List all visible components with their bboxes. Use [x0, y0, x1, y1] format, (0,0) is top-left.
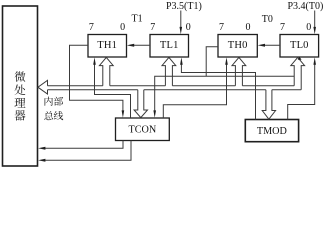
- svg-text:T1: T1: [132, 13, 143, 24]
- wire: TH0 left side branch down to control run: [206, 47, 218, 77]
- wire: TMOD control run up into TL1 bottom (arrow) and down into TMOD top: [181, 62, 255, 120]
- wire: TCON to CPU line B (arrow left into CPU): [44, 141, 131, 161]
- svg-text:0: 0: [120, 22, 125, 33]
- label 内部总线 internal bus: [45, 97, 53, 106]
- wire: TMOD up to TL0 bottom (arrow up into TL0): [288, 62, 315, 120]
- wire: carry TL1 to TH1: [133, 44, 150, 46]
- svg-text:TL0: TL0: [290, 40, 309, 51]
- wire: TH1 left side down to TCON (arrow down into TCON top): [70, 45, 123, 111]
- svg-text:P3.4(T0): P3.4(T0): [288, 1, 324, 12]
- wire: P3.5(T1) pin input into TL1 top: [180, 11, 182, 31]
- label 微: [15, 71, 26, 82]
- register TL0: [280, 35, 319, 58]
- wire: bus top line: [48, 85, 103, 87]
- register TCON: [116, 118, 170, 141]
- svg-text:7: 7: [280, 22, 285, 33]
- label 理: [15, 98, 26, 108]
- wire: TCON to TH1 (arrow up into TH1 bottom): [95, 62, 131, 118]
- svg-text:7: 7: [150, 22, 155, 33]
- svg-text:TMOD: TMOD: [257, 126, 287, 137]
- svg-text:7: 7: [219, 22, 224, 33]
- svg-text:0: 0: [246, 22, 251, 33]
- wire: TCON up to TH0 bottom (arrow up into TH0): [163, 62, 226, 118]
- wire: hidden riser tip into TL0 (dark tip inside hollow arrow): [298, 57, 302, 60]
- svg-text:TL1: TL1: [160, 40, 179, 51]
- wire: bus bottom line: [48, 89, 138, 91]
- internal bus pipe: hollow arrow into microprocessor: [38, 80, 48, 94]
- microprocessor box 微处理器: [3, 6, 38, 166]
- hollow bus arrow down into TMOD: [262, 90, 275, 120]
- svg-text:TCON: TCON: [129, 124, 157, 135]
- wire: TCON to CPU line A (arrow left into CPU): [44, 141, 123, 149]
- svg-text:0: 0: [186, 22, 191, 33]
- register TH1: [88, 35, 127, 58]
- svg-text:TH1: TH1: [97, 40, 117, 51]
- hollow bus arrow up into TL0: [291, 57, 305, 89]
- svg-text:TH0: TH0: [228, 40, 248, 51]
- register TL1: [150, 35, 189, 58]
- svg-text:P3.5(T1): P3.5(T1): [166, 1, 202, 12]
- svg-text:T0: T0: [262, 14, 273, 25]
- register TMOD: [245, 120, 298, 142]
- wire: P3.4(T0) pin input into TL0 top: [314, 11, 316, 31]
- hollow bus arrow up into TH1: [99, 57, 113, 85]
- hollow bus arrow up into TH0: [232, 57, 246, 85]
- hollow bus arrow down into TCON: [134, 90, 147, 118]
- svg-text:7: 7: [89, 22, 94, 33]
- wire: control run to TCON (arrow down into TCON) and to TL0 via bus-arrow shaft: [155, 76, 295, 111]
- register TH0: [218, 35, 257, 58]
- label 器: [15, 110, 26, 120]
- label 处: [15, 85, 26, 96]
- hollow bus arrow up into TL1: [162, 57, 176, 85]
- svg-text:0: 0: [306, 22, 311, 33]
- wire: carry TL0 to TH0: [264, 44, 281, 46]
